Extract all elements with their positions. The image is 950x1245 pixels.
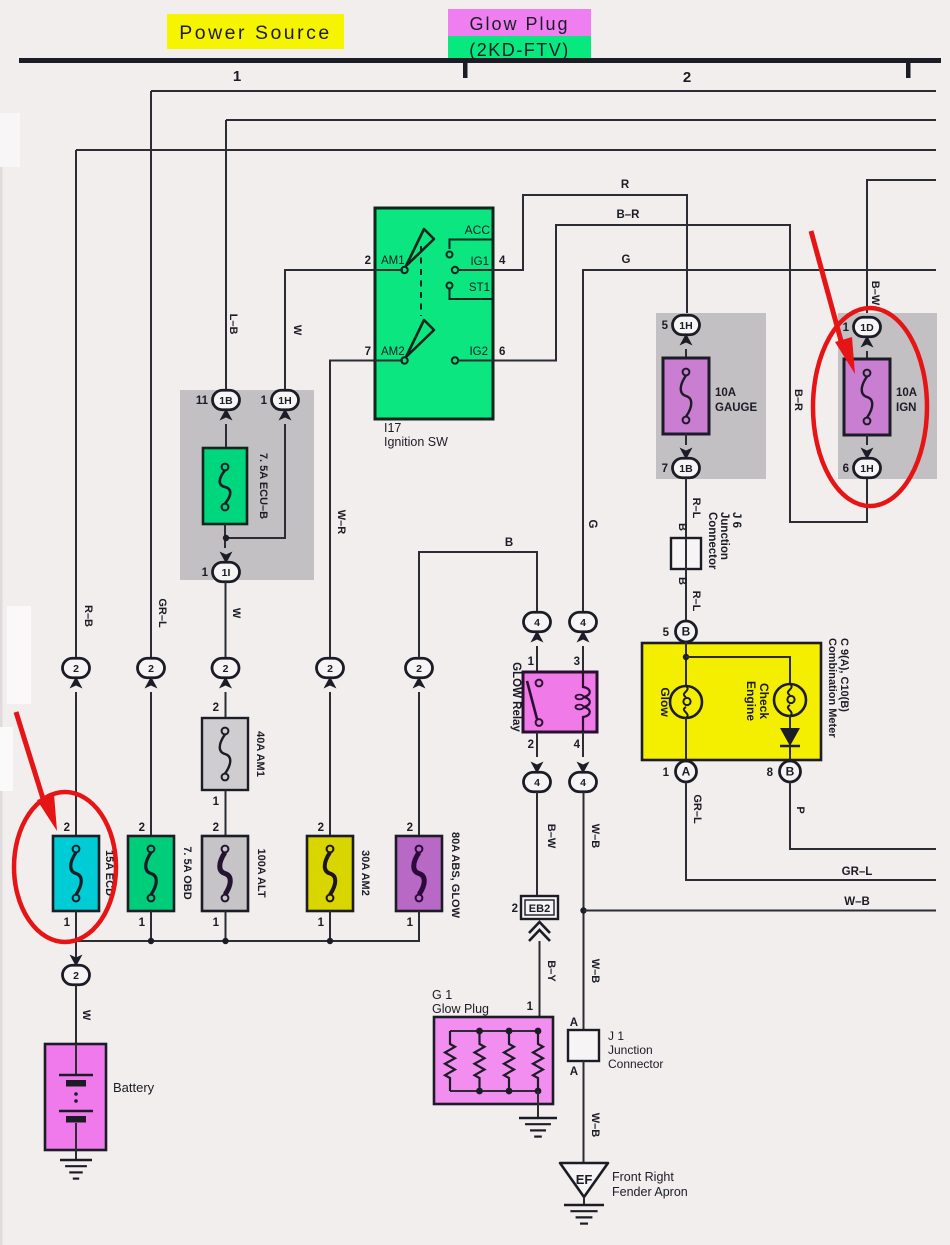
svg-text:2: 2 [407, 822, 413, 834]
wire glow plug to ground [537, 1091, 539, 1117]
svg-text:Front Right: Front Right [612, 1170, 674, 1184]
wire feeder to GR-L [151, 90, 936, 92]
svg-text:J 1: J 1 [608, 1029, 624, 1043]
wire feeder to L-B [226, 119, 936, 121]
contact IG2 [452, 357, 458, 363]
arrow into 1I [220, 552, 233, 564]
svg-text:3: 3 [574, 656, 580, 668]
svg-text:10A: 10A [715, 387, 736, 399]
ground glow plug [519, 1117, 557, 1120]
ground symbol EF [564, 1204, 604, 1207]
ground battery [60, 1159, 92, 1162]
svg-text:B: B [682, 625, 691, 639]
svg-text:1: 1 [213, 796, 220, 808]
relay GLOW Relay box [523, 672, 597, 732]
svg-text:10A: 10A [896, 387, 917, 399]
svg-text:1: 1 [213, 917, 220, 929]
wire 1D to IGN fuse [866, 351, 868, 359]
wire B-W relay to EB2 [536, 792, 538, 896]
fuse 30A AM2 [307, 836, 353, 911]
svg-text:40A AM1: 40A AM1 [254, 731, 266, 777]
svg-text:1: 1 [261, 395, 268, 407]
svg-text:2: 2 [139, 822, 145, 834]
svg-text:G: G [586, 520, 598, 529]
bus tick 2 [906, 63, 911, 78]
connector oval 2 at x=76 [63, 658, 90, 678]
svg-text:Power Source: Power Source [179, 22, 331, 44]
arrow into IGN fuse [861, 336, 874, 348]
wire oval to 80A ABS GLOW [418, 692, 420, 836]
svg-text:2: 2 [318, 822, 324, 834]
svg-text:2: 2 [528, 739, 534, 751]
glow plug resistor 2 [475, 1031, 485, 1091]
svg-text:B–R: B–R [616, 209, 640, 221]
svg-text:2: 2 [64, 822, 70, 834]
svg-text:W: W [291, 325, 303, 336]
combination meter box [642, 643, 821, 760]
shaded block ECU-B [180, 390, 314, 580]
glow plug resistor 4 [533, 1031, 543, 1091]
svg-text:AM1: AM1 [381, 255, 405, 267]
wire GR-L vertical [150, 91, 152, 658]
wire R from IG1 to GAUGE fuse [458, 195, 687, 315]
glow plug junction dots [476, 1028, 483, 1035]
svg-text:W–B: W–B [589, 824, 601, 849]
contact IG1 [452, 267, 458, 273]
svg-text:Glow: Glow [658, 687, 672, 717]
lever AM2 [406, 320, 434, 357]
svg-text:4: 4 [499, 255, 506, 267]
wire check bulb to diode [789, 716, 791, 728]
fuse 7.5A ECU-B [203, 448, 247, 524]
relay switch contact [536, 680, 543, 687]
svg-text:J 6: J 6 [730, 512, 742, 528]
svg-text:Battery: Battery [113, 1080, 155, 1095]
svg-text:1B: 1B [219, 395, 233, 407]
junction dot bus AM2 [327, 938, 333, 944]
wire branch to check engine bulb [686, 657, 790, 684]
arrow into battery oval 2 [70, 955, 83, 967]
lever AM1 [406, 229, 434, 266]
svg-text:L–B: L–B [227, 314, 239, 335]
wire R-B oval to 15A ECD [75, 692, 77, 836]
svg-text:Glow Plug: Glow Plug [432, 1002, 489, 1016]
wire EF to ground [583, 1197, 585, 1204]
wire IGN fuse to 1H [866, 435, 868, 445]
svg-text:4: 4 [580, 617, 586, 629]
svg-text:7. 5A ECU–B: 7. 5A ECU–B [257, 453, 269, 519]
svg-text:B–W: B–W [545, 824, 557, 849]
svg-text:GAUGE: GAUGE [715, 402, 758, 414]
wire connector to relay pin 3 [582, 646, 584, 672]
connector oval 2 at x=151 [138, 658, 165, 678]
svg-text:80A ABS, GLOW: 80A ABS, GLOW [449, 832, 461, 919]
wire B-Y EB2 to glow plug [539, 941, 541, 1030]
svg-text:Junction: Junction [718, 512, 730, 560]
svg-text:Connector: Connector [608, 1057, 663, 1071]
contact AM2 [401, 357, 407, 363]
svg-text:GR–L: GR–L [691, 794, 703, 824]
svg-text:ACC: ACC [465, 223, 491, 237]
connector oval 2 at x=225.5 [212, 658, 239, 678]
title box (2KD-FTV) [448, 36, 591, 61]
svg-text:Engine: Engine [744, 681, 758, 721]
arrow into 1B [680, 448, 693, 460]
svg-text:W: W [230, 608, 242, 619]
connector oval 2 at x=419 [406, 658, 433, 678]
svg-text:AM2: AM2 [381, 346, 405, 358]
red arrow to IGN fuse [811, 231, 843, 348]
bus tick 1 [463, 63, 468, 78]
wire B to glow relay [419, 552, 537, 658]
contact AM1 [401, 267, 407, 273]
connector 4 relay pin3 [570, 612, 597, 632]
svg-text:B: B [786, 765, 795, 779]
svg-text:B: B [676, 523, 688, 531]
svg-text:R–B: R–B [82, 605, 94, 627]
wire to battery [75, 985, 77, 1044]
svg-text:4: 4 [574, 739, 581, 751]
wire W-B horizontal [584, 910, 937, 912]
fuse 7.5A OBD [128, 836, 174, 911]
title box Glow Plug [448, 9, 591, 36]
svg-text:P: P [794, 806, 806, 813]
arrow into oval 2 at x=419 [413, 677, 426, 689]
arrow into relay pin1 connector [531, 631, 544, 643]
wire relay pin 4 down [582, 732, 584, 757]
wire 1H to GAUGE fuse [685, 349, 687, 358]
svg-text:1D: 1D [860, 322, 874, 334]
svg-text:C 9(A), C10(B): C 9(A), C10(B) [838, 638, 850, 712]
pin stub AM2 [375, 360, 403, 362]
wire battery to ground [75, 1150, 77, 1160]
fuse 100A ALT [202, 836, 248, 911]
svg-text:4: 4 [534, 777, 540, 789]
svg-text:2: 2 [213, 822, 219, 834]
svg-text:GLOW Relay: GLOW Relay [510, 662, 522, 732]
svg-text:100A ALT: 100A ALT [255, 848, 267, 897]
fuse 15A ECD [53, 836, 99, 911]
arrow into 1H-6 [861, 448, 874, 460]
svg-text:W: W [80, 1010, 92, 1021]
wire G feeder [583, 270, 936, 612]
svg-text:30A AM2: 30A AM2 [359, 850, 371, 896]
svg-text:R–L: R–L [690, 591, 702, 612]
fuse 10A GAUGE [663, 358, 709, 434]
svg-text:1B: 1B [679, 463, 693, 475]
chevron shield EB2 [529, 922, 550, 941]
svg-text:1: 1 [527, 1001, 534, 1013]
svg-text:7: 7 [662, 463, 668, 475]
wire relay pin 2 down [536, 732, 538, 757]
arrow into 1H [279, 409, 292, 421]
bulb Glow [670, 686, 702, 718]
svg-text:A: A [570, 1066, 578, 1078]
connector oval 2 at x=330 [317, 658, 344, 678]
svg-text:7. 5A OBD: 7. 5A OBD [181, 846, 193, 899]
glow plug rails [450, 1031, 538, 1091]
wire 1B to fuse [225, 424, 227, 448]
battery box [45, 1044, 106, 1150]
wire 1I down [225, 582, 227, 658]
pin stub AM1 [375, 269, 403, 271]
svg-text:R: R [621, 179, 630, 191]
junction dot bus ALT [222, 938, 228, 944]
wire GAUGE fuse to 1B [685, 434, 687, 445]
title box Power Source [167, 14, 344, 49]
svg-text:Connector: Connector [706, 512, 718, 570]
red arrow to 15A ECD fuse [16, 712, 45, 805]
wire W from AM1 to fuse block [285, 270, 403, 390]
svg-text:2: 2 [213, 702, 219, 714]
wire 40A AM1 to 100A ALT [225, 790, 227, 836]
wire P from meter B [790, 782, 936, 849]
wire connector to relay pin 1 [536, 646, 538, 672]
wire 1H branch to fuse output [226, 424, 285, 538]
svg-text:R–L: R–L [690, 498, 702, 519]
svg-text:5: 5 [663, 627, 670, 639]
svg-text:1H: 1H [278, 395, 291, 407]
wire W-B relay to junction [583, 792, 585, 1030]
svg-text:W–B: W–B [589, 959, 601, 984]
svg-text:2: 2 [327, 663, 333, 675]
junction dot bus GR-L [148, 938, 154, 944]
wire bus to battery connector [75, 941, 77, 962]
contact ST1 with bracket [447, 283, 453, 289]
arrow into relay pin3 connector [577, 631, 590, 643]
battery cells [75, 1044, 77, 1075]
wire 1B to J6 [685, 478, 687, 538]
arrow into oval 2 at x=76 [70, 677, 83, 689]
pin stub IG1 [458, 269, 494, 271]
svg-text:B: B [676, 577, 688, 585]
wire battery bus [76, 911, 419, 941]
svg-text:1: 1 [663, 767, 670, 779]
relay coil [583, 672, 590, 732]
svg-text:2: 2 [73, 970, 79, 982]
svg-text:IG1: IG1 [470, 256, 489, 268]
wire meter B to glow bulb [685, 642, 687, 686]
svg-text:8: 8 [767, 767, 774, 779]
wire L-B vertical [225, 120, 227, 390]
arrow into oval 2 at x=330 [324, 677, 337, 689]
wire J1 to EF [583, 1061, 585, 1163]
svg-text:(2KD-FTV): (2KD-FTV) [469, 40, 570, 60]
wire W oval to 40A AM1 [225, 692, 227, 718]
svg-text:1: 1 [528, 656, 535, 668]
arrow into oval 2 at x=151 [145, 677, 158, 689]
svg-text:B: B [505, 537, 513, 549]
fuse 40A AM1 [202, 718, 248, 790]
glow plug resistor 1 [445, 1031, 455, 1091]
wire fuse to 1I [224, 524, 226, 548]
svg-text:G: G [622, 254, 631, 266]
svg-text:2: 2 [223, 663, 229, 675]
svg-text:4: 4 [534, 617, 540, 629]
svg-text:1H: 1H [860, 463, 873, 475]
arrow into lower connector pin4 [577, 762, 590, 774]
svg-text:1: 1 [64, 917, 71, 929]
svg-text:1: 1 [318, 917, 325, 929]
wire R-B vertical [75, 150, 77, 658]
scan artifact patches [0, 150, 3, 1245]
svg-text:A: A [570, 1017, 578, 1029]
wire through J6 [685, 538, 687, 569]
svg-text:Ignition SW: Ignition SW [384, 435, 448, 449]
svg-text:G 1: G 1 [432, 988, 452, 1002]
connector oval 2 battery [63, 965, 90, 985]
svg-text:Junction: Junction [608, 1043, 653, 1057]
svg-text:11: 11 [196, 395, 209, 407]
svg-text:1: 1 [843, 322, 850, 334]
svg-text:B–Y: B–Y [545, 960, 557, 982]
svg-text:2: 2 [416, 663, 422, 675]
svg-text:B–W: B–W [869, 281, 881, 306]
shaded block IGN [838, 313, 937, 479]
top power bus bar [19, 58, 941, 63]
svg-text:2: 2 [683, 69, 691, 86]
junction dot W-B [580, 907, 586, 913]
ground EF Front Right Fender Apron [560, 1163, 608, 1197]
glow plug G1 box [434, 1017, 553, 1104]
svg-text:Glow Plug: Glow Plug [469, 14, 569, 34]
arrow into 1B [220, 409, 233, 421]
svg-text:2: 2 [365, 255, 371, 267]
svg-text:B–R: B–R [792, 389, 804, 411]
svg-text:5: 5 [662, 320, 669, 332]
svg-text:GR–L: GR–L [156, 598, 168, 628]
ignition switch I17 box [375, 208, 493, 419]
shaded block GAUGE [656, 313, 766, 479]
svg-text:1: 1 [139, 917, 146, 929]
svg-text:2: 2 [73, 663, 79, 675]
svg-text:1: 1 [407, 917, 414, 929]
connector 4 below relay pin4 [570, 772, 597, 792]
wire J6 to meter B [685, 569, 687, 621]
junction connector J1 box [568, 1030, 599, 1061]
red ellipse highlight IGN fuse [813, 308, 927, 506]
svg-text:EB2: EB2 [529, 903, 550, 915]
svg-text:IGN: IGN [896, 402, 916, 414]
diode check engine [780, 728, 800, 746]
wire GR-L from meter A [686, 782, 936, 880]
svg-text:1: 1 [233, 68, 241, 85]
svg-text:6: 6 [499, 346, 505, 358]
glow plug resistor 3 [504, 1031, 514, 1091]
pin stub IG2 [458, 360, 494, 362]
red ellipse highlight 15A ECD fuse [14, 792, 116, 942]
wire feeder to R-B [76, 149, 936, 151]
arrow into GAUGE fuse [680, 334, 693, 346]
svg-text:Check: Check [757, 683, 771, 719]
junction connector J6 box [671, 538, 701, 569]
wire W-R from AM2 [330, 361, 403, 659]
svg-text:GR–L: GR–L [842, 866, 873, 878]
wire W-R oval to 30A AM2 [329, 692, 331, 836]
svg-text:2: 2 [512, 903, 518, 915]
svg-text:EF: EF [576, 1172, 593, 1187]
arrow into oval 2 at x=225.5 [219, 677, 232, 689]
svg-text:1: 1 [202, 567, 209, 579]
connector 4 below relay pin2 [524, 772, 551, 792]
svg-text:IG2: IG2 [469, 346, 488, 358]
arrow into lower connector pin2 [531, 762, 544, 774]
svg-text:W–R: W–R [335, 510, 347, 535]
wire B-R from IG2 to IGN fuse [455, 225, 867, 522]
svg-text:Combination Meter: Combination Meter [826, 638, 838, 738]
connector 4 relay pin1 [524, 612, 551, 632]
svg-text:6: 6 [843, 463, 849, 475]
contact ACC with bracket [450, 240, 493, 250]
svg-text:I17: I17 [384, 421, 401, 435]
mechanical link dashed [420, 246, 422, 316]
svg-text:7: 7 [365, 346, 371, 358]
junction dot meter [683, 654, 689, 660]
fuse 10A IGN [844, 359, 890, 435]
svg-text:Fender Apron: Fender Apron [612, 1185, 688, 1199]
svg-text:A: A [682, 765, 691, 779]
svg-text:1I: 1I [222, 567, 231, 579]
bulb Check Engine [774, 684, 806, 716]
wire B-W feeder [867, 180, 936, 318]
svg-text:1H: 1H [679, 320, 692, 332]
svg-text:2: 2 [148, 663, 154, 675]
wire glow bulb to A [685, 718, 687, 761]
svg-text:ST1: ST1 [469, 282, 490, 294]
wire GR-L oval to 7.5A OBD [150, 692, 152, 836]
junction dot ECU-B output [223, 535, 229, 541]
svg-text:W–B: W–B [844, 896, 870, 908]
svg-text:W–B: W–B [589, 1113, 601, 1138]
fuse 80A ABS GLOW [396, 836, 442, 911]
svg-text:4: 4 [580, 777, 586, 789]
